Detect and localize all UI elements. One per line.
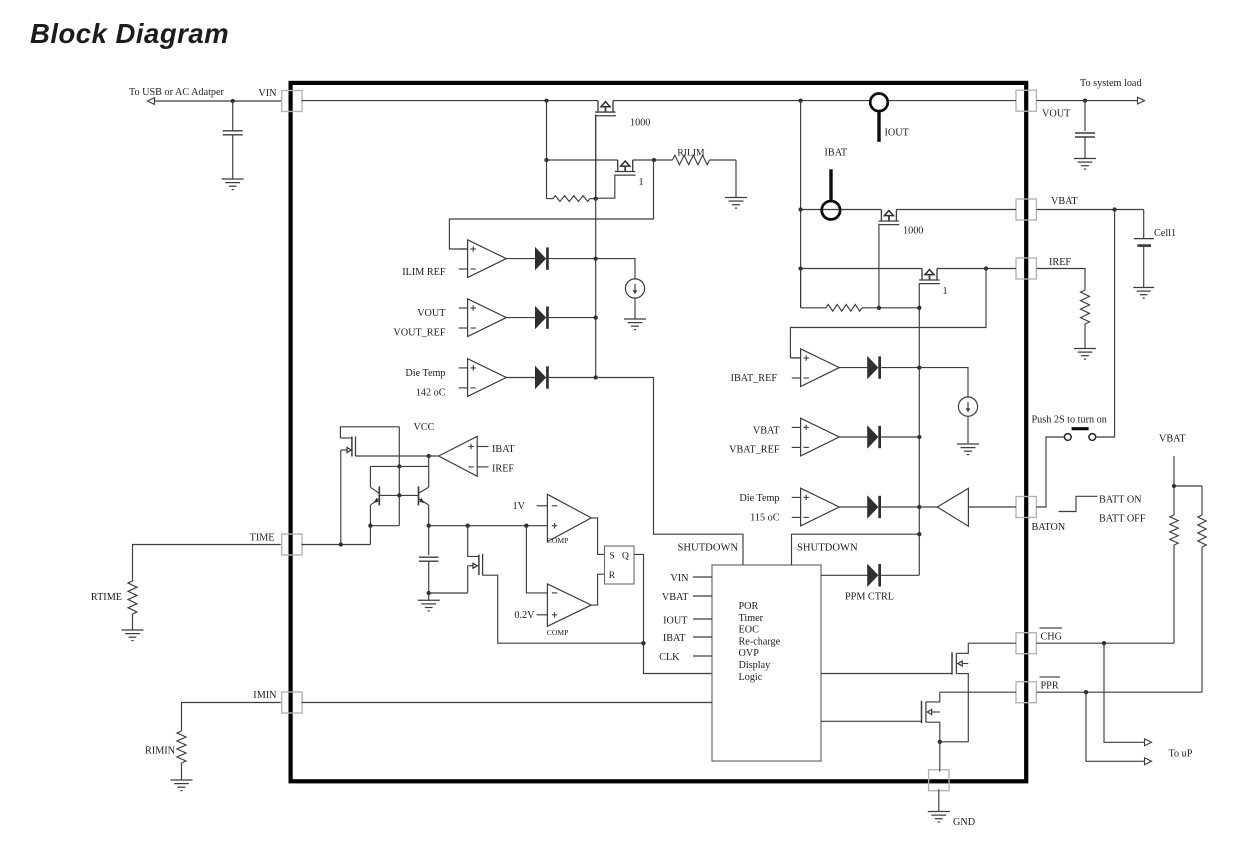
ground GND pin (928, 812, 950, 823)
svg-text:VBAT: VBAT (753, 425, 780, 436)
label 142 oC (416, 388, 446, 399)
resistor RIMIN (177, 731, 186, 780)
svg-text:1V: 1V (513, 501, 526, 512)
svg-text:IBAT_REF: IBAT_REF (731, 373, 778, 384)
logic block (712, 565, 821, 761)
svg-text:VBAT: VBAT (1051, 196, 1078, 207)
label 1 right (942, 286, 947, 297)
ground I1 (624, 319, 646, 330)
transistor M3 CHG driver (952, 643, 968, 742)
diode D1 (536, 247, 549, 269)
svg-text:1000: 1000 (903, 225, 923, 236)
svg-text:VIN: VIN (670, 573, 689, 584)
junction sense left (544, 158, 548, 162)
label 1 left (638, 177, 643, 188)
svg-text:VCC: VCC (414, 422, 435, 433)
svg-text:Re-charge: Re-charge (739, 636, 781, 647)
wire Q output (634, 554, 712, 673)
svg-text:VOUT: VOUT (1042, 109, 1071, 120)
label VBAT_REF (729, 444, 780, 455)
transistor Q1 PNP (370, 486, 379, 505)
wire button to VBAT (1096, 210, 1115, 438)
svg-text:VOUT: VOUT (417, 308, 446, 319)
svg-text:115 oC: 115 oC (750, 512, 780, 523)
wire CHG to uP (1104, 643, 1145, 742)
svg-text:1: 1 (638, 177, 643, 188)
wire VIN external (150, 100, 282, 102)
label SHUTDOWN left (678, 542, 739, 553)
svg-text:Die Temp: Die Temp (739, 493, 779, 504)
wire IREF external (1036, 269, 1085, 291)
label 1000 left (630, 118, 650, 129)
label To system load (1080, 78, 1142, 89)
wire shutdown right (792, 534, 920, 565)
svg-text:BATT ON: BATT ON (1099, 495, 1142, 506)
IC boundary (291, 83, 1027, 781)
wire VCC rail (340, 427, 399, 438)
wire ILIM output (506, 258, 536, 260)
pin PPR (1016, 682, 1036, 703)
wire Q2 emitter drop (428, 505, 430, 526)
wire D7 to bus (881, 574, 919, 576)
svg-text:IBAT: IBAT (663, 633, 686, 644)
current source I2 (958, 397, 977, 416)
label RIMIN (145, 746, 176, 757)
wire M1 gate (596, 175, 615, 199)
wire 0.2V output to R (591, 574, 604, 605)
wire M1000 gate (594, 115, 597, 199)
push button S1 (1064, 429, 1095, 441)
ground timer cap (418, 593, 440, 611)
svg-text:R: R (609, 570, 616, 581)
latch SR (605, 546, 635, 584)
label CHG (1040, 628, 1063, 643)
svg-text:Push 2S to turn on: Push 2S to turn on (1032, 415, 1107, 426)
junction mirror right gate (877, 306, 881, 310)
wire D5 to bus (881, 436, 919, 438)
svg-text:IREF: IREF (1049, 257, 1071, 268)
junction clk node (641, 641, 645, 645)
pin IMIN (282, 692, 302, 713)
label VOUT comp plus (417, 308, 446, 319)
wire bus to buffer (919, 506, 937, 508)
label Die Temp 142 (405, 368, 445, 379)
pin VIN (282, 91, 302, 112)
op-amp VBAT comparator (792, 418, 840, 456)
svg-text:RILIM: RILIM (677, 147, 705, 158)
svg-text:S: S (609, 550, 614, 561)
logic input IBAT (663, 633, 712, 644)
capacitor COUT (1075, 101, 1095, 158)
junction top rail right (798, 98, 802, 102)
wire PPR to uP (1086, 692, 1145, 761)
junction comp drive node (427, 454, 431, 458)
junction timer 02v (524, 524, 528, 528)
label 1000 right (903, 225, 923, 236)
wire shutdown left drop (596, 378, 743, 566)
arrow CHG uP (1145, 739, 1152, 746)
wire D3 to bus (549, 377, 596, 379)
wire cap to nmos source (429, 592, 468, 594)
label GND (953, 817, 975, 828)
wire buffer to BATON pin (968, 506, 1016, 508)
logic input IOUT (663, 616, 712, 627)
label BATT OFF (1099, 514, 1146, 525)
arrow to USB/AC adapter (148, 98, 155, 105)
svg-text:142 oC: 142 oC (416, 388, 446, 399)
capacitor timer (419, 526, 439, 593)
op-amp ILIM comparator (459, 240, 507, 278)
wire to GND pin (939, 742, 941, 772)
junction base node (397, 493, 401, 497)
wire TIME riser (369, 526, 371, 545)
svg-text:BATT OFF: BATT OFF (1099, 514, 1146, 525)
label 0.2V (514, 610, 535, 621)
title (30, 18, 229, 49)
svg-text:To system load: To system load (1080, 78, 1142, 89)
svg-text:1: 1 (942, 286, 947, 297)
diode D3 (536, 366, 549, 388)
wire M1b gate bus (918, 283, 920, 575)
wire IMIN external (182, 703, 281, 732)
svg-text:IOUT: IOUT (663, 616, 688, 627)
junction IREF left (798, 266, 802, 270)
svg-text:Cell1: Cell1 (1154, 228, 1176, 239)
svg-text:Q: Q (622, 550, 629, 561)
wire PPM row (821, 574, 868, 576)
label IREF pin (1049, 257, 1071, 268)
junction D6 bus (917, 505, 921, 509)
svg-text:SHUTDOWN: SHUTDOWN (797, 542, 858, 553)
svg-text:VOUT_REF: VOUT_REF (393, 328, 445, 339)
junction cap ground node (427, 591, 431, 595)
pin TIME (282, 534, 302, 555)
logic input VBAT (662, 592, 712, 603)
junction emitter-TIME (368, 524, 372, 528)
junction timer cap (427, 524, 431, 528)
wire VBAT external (1036, 209, 1143, 211)
label VCC (414, 422, 435, 433)
wire left bus (595, 115, 597, 377)
wire CHG gate (821, 673, 952, 675)
wire RILIM to ground (735, 160, 737, 198)
resistor mirror right (801, 269, 920, 312)
junction mirror resistor node (594, 196, 598, 200)
junction CHG branch (1102, 641, 1106, 645)
ground RTIME (122, 630, 144, 641)
resistor RIREF (1081, 290, 1090, 349)
wire VBAT right stem (1173, 456, 1175, 486)
label IOUT probe (885, 127, 910, 138)
svg-text:IMIN: IMIN (253, 690, 277, 701)
svg-text:IBAT: IBAT (492, 444, 515, 455)
wire emitter left segment (370, 525, 399, 527)
junction top rail left (544, 98, 548, 102)
wire VOUT comp output (506, 317, 536, 319)
diode D2 (536, 306, 549, 328)
transistor M1 ratio 1 (615, 160, 636, 175)
label SHUTDOWN right (797, 542, 858, 553)
svg-text:VBAT: VBAT (662, 592, 689, 603)
junction shutdown right (917, 532, 921, 536)
pin VOUT (1016, 90, 1036, 111)
wire sense node row (547, 159, 655, 161)
ground COUT (1074, 159, 1096, 170)
svg-text:Display: Display (739, 660, 772, 671)
resistor RTIME (128, 581, 137, 630)
junction D5 bus (917, 435, 921, 439)
svg-text:ILIM REF: ILIM REF (402, 267, 446, 278)
label To USB or AC Adatper (129, 87, 225, 98)
wire VIN rail (301, 100, 1016, 102)
label IREF comp (492, 464, 514, 475)
pin VBAT (1016, 199, 1036, 220)
svg-text:RTIME: RTIME (91, 592, 122, 603)
wire 02v branch (526, 526, 547, 593)
label RILIM (677, 147, 705, 158)
label COMP 0.2V (547, 628, 569, 637)
logic input CLK (659, 652, 712, 663)
svg-text:BATON: BATON (1032, 522, 1066, 533)
svg-text:GND: GND (953, 817, 975, 828)
svg-text:SHUTDOWN: SHUTDOWN (678, 542, 739, 553)
svg-text:PPR: PPR (1041, 681, 1059, 692)
wire ILIM feedback (449, 160, 653, 249)
wire VIN drop right (800, 101, 802, 308)
label VBAT right (1159, 434, 1186, 445)
transistor M1b ratio 1 (919, 269, 940, 284)
svg-text:IOUT: IOUT (885, 127, 910, 138)
wire source join (940, 741, 969, 743)
transistor M4 PPR driver (922, 692, 940, 742)
current source I1 (625, 279, 644, 298)
svg-text:Timer: Timer (739, 613, 764, 624)
label 1V (513, 501, 526, 512)
label IBAT comp (492, 444, 515, 455)
transistor M1000b ratio 1000 (879, 210, 900, 225)
label RTIME (91, 592, 122, 603)
label TIME (250, 533, 275, 544)
wire BATON to button (1036, 437, 1064, 507)
svg-text:To uP: To uP (1169, 749, 1193, 760)
ground RIMIN (171, 780, 193, 791)
wire DT142 output (506, 377, 536, 379)
wire I2 ground (967, 416, 969, 444)
wire IBAT feedback (790, 269, 986, 358)
wire BJT1 collector drop (369, 466, 371, 487)
wire D1 to bus (549, 258, 596, 260)
op-amp IBAT-IREF comparator (439, 436, 489, 476)
wire D2 to bus (549, 317, 596, 319)
wire Q3 gate row (356, 455, 439, 457)
wire VBAT row (801, 209, 1016, 211)
junction D2 bus (594, 315, 598, 319)
svg-text:VBAT_REF: VBAT_REF (729, 444, 780, 455)
junction D1 bus (594, 256, 598, 260)
junction sense RILIM node (652, 158, 656, 162)
wire PPR row internal (940, 691, 1016, 693)
ground RIREF (1074, 349, 1096, 360)
junction D4 bus (917, 365, 921, 369)
op-amp IBAT_REF comparator (792, 349, 840, 387)
wire bus to current source 2 (919, 368, 968, 397)
label BATON (1032, 522, 1066, 533)
junction VIN cap node (231, 99, 235, 103)
wire BJT2 collector drop (428, 456, 430, 487)
wire GND external (938, 789, 940, 811)
resistor RILIM (654, 155, 736, 164)
junction pullup split (1172, 484, 1176, 488)
wire CHG row internal (968, 642, 1016, 644)
pin GND (929, 770, 949, 791)
svg-text:CHG: CHG (1041, 632, 1063, 643)
op-amp DieTemp115 comparator (792, 488, 840, 526)
pin CHG (1016, 633, 1036, 654)
label VBAT pin (1051, 196, 1078, 207)
ground RILIM (725, 198, 747, 209)
wire IREF row (801, 268, 1016, 270)
junction IREF feedback (984, 266, 988, 270)
junction D3 bus (594, 375, 598, 379)
wire BJT base link (379, 494, 418, 496)
junction TIME node (339, 542, 343, 546)
wire bus to current source (596, 259, 635, 279)
wire pullup bridge (1174, 485, 1202, 487)
logic input VIN (670, 573, 712, 584)
wire TIME external (133, 545, 281, 582)
wire BJT collector rail (370, 465, 428, 467)
wire DT115 output (839, 506, 868, 508)
transistor M2 NMOS reset (468, 526, 483, 593)
transistor Q2 PNP (419, 486, 429, 505)
resistor R2 pullup PPR (1198, 486, 1206, 692)
label VOUT_REF (393, 328, 445, 339)
junction VBAT left (798, 207, 802, 211)
svg-text:CLK: CLK (659, 652, 680, 663)
label To uP (1169, 749, 1193, 760)
svg-text:IREF: IREF (492, 464, 514, 475)
pin BATON (1016, 497, 1036, 518)
svg-text:PPM CTRL: PPM CTRL (845, 591, 894, 602)
svg-text:To USB or AC Adatper: To USB or AC Adatper (129, 87, 225, 98)
op-amp COMP 0.2V (547, 584, 591, 626)
label VOUT pin (1042, 109, 1071, 120)
junction PPR branch (1084, 690, 1088, 694)
transistor Q3 PMOS (340, 437, 355, 457)
label IBAT probe (825, 147, 848, 158)
probe IBAT (822, 169, 840, 219)
wire I1 to ground (634, 298, 636, 319)
wire 1V output to S (591, 518, 604, 555)
svg-text:IBAT: IBAT (825, 147, 848, 158)
junction VOUT cap (1083, 98, 1087, 102)
diode D5 (868, 426, 881, 448)
label 115 oC (750, 512, 780, 523)
wire VBATcomp output (839, 436, 868, 438)
pin IREF (1016, 258, 1036, 279)
svg-text:1000: 1000 (630, 118, 650, 129)
wire 02v stub (537, 614, 548, 616)
wire M2 gate to clk line (483, 575, 644, 643)
label PPM CTRL (845, 591, 894, 602)
wire PMOS drain drop (398, 427, 400, 526)
svg-text:VBAT: VBAT (1159, 434, 1186, 445)
label BATT ON (1099, 495, 1142, 506)
svg-text:Die Temp: Die Temp (405, 368, 445, 379)
diode D4 (868, 356, 881, 378)
label VBAT comp (753, 425, 780, 436)
ground I2 (957, 444, 979, 455)
junction source node (938, 740, 942, 744)
svg-text:COMP: COMP (547, 536, 569, 545)
junction timer nmos (466, 524, 470, 528)
wire D6 to bus (881, 506, 919, 508)
wire IMIN internal (301, 702, 712, 704)
wire Q1 emitter drop (369, 505, 371, 526)
resistor R1 pullup CHG (1170, 486, 1178, 643)
op-amp DieTemp142 comparator (459, 359, 507, 397)
wire PPR external (1036, 691, 1202, 693)
wire PPR gate (821, 720, 922, 722)
svg-text:VIN: VIN (258, 88, 277, 99)
label IMIN (253, 690, 277, 701)
junction rail-BJT (397, 464, 401, 468)
svg-text:EOC: EOC (739, 625, 760, 636)
svg-text:COMP: COMP (547, 628, 569, 637)
wire Q3 source to TIME (340, 450, 342, 545)
op-amp VOUT comparator (459, 299, 507, 337)
transistor M1000 ratio 1000 (595, 101, 616, 116)
arrow to system load (1138, 97, 1145, 104)
wire TIME internal (301, 544, 370, 546)
label VIN (258, 88, 277, 99)
wire timer node row (429, 525, 548, 527)
diode D7 PPM CTRL (868, 564, 881, 586)
buffer BATON (937, 488, 968, 526)
wire 1V stub (537, 505, 548, 507)
svg-text:OVP: OVP (739, 648, 760, 659)
label PPR (1040, 677, 1061, 692)
arrow PPR uP (1145, 758, 1152, 765)
op-amp COMP 1V (547, 494, 591, 541)
svg-text:TIME: TIME (250, 533, 275, 544)
capacitor CIN (223, 101, 243, 179)
resistor mirror left (547, 196, 596, 202)
junction VBAT battery (1112, 207, 1116, 211)
wire M1000b gate (878, 224, 880, 308)
logic block functions (739, 601, 781, 683)
wire VOUT external (1036, 100, 1141, 102)
switch position indicator (1059, 496, 1098, 511)
wire CHG external (1036, 642, 1174, 644)
wire VIN drop to resistor (546, 101, 548, 199)
label ILIM REF (402, 267, 446, 278)
wire IBATREF output (839, 367, 868, 369)
ground Cell1 (1133, 288, 1154, 299)
label Die Temp 115 (739, 493, 779, 504)
label COMP 1V (547, 536, 569, 545)
junction mirror right bus (917, 306, 921, 310)
diode D6 (868, 496, 881, 518)
ground CIN (222, 179, 244, 190)
battery Cell1 (1134, 210, 1154, 288)
label Push 2S to turn on (1032, 415, 1107, 426)
svg-text:POR: POR (739, 601, 759, 612)
label IBAT_REF (731, 373, 778, 384)
probe IOUT (870, 94, 888, 142)
svg-text:Logic: Logic (739, 672, 763, 683)
svg-text:RIMIN: RIMIN (145, 746, 176, 757)
